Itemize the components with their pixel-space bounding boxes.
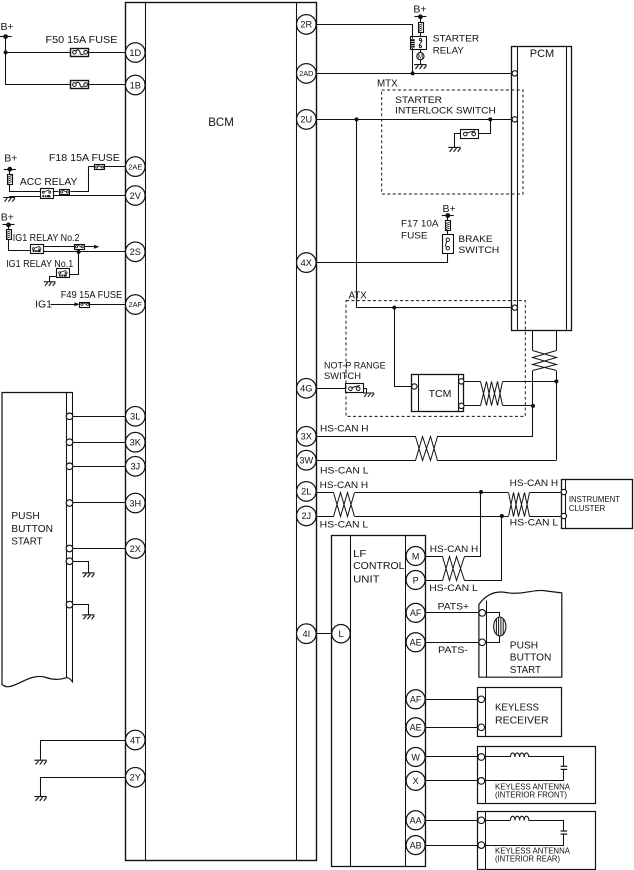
B+ terminal (brake switch) [442, 203, 456, 218]
BCM pin 2R [297, 15, 317, 35]
wire twist down HS-CAN H [532, 371, 534, 436]
svg-text:4X: 4X [301, 258, 312, 268]
TCM right strip line [458, 375, 460, 412]
svg-text:PATS+: PATS+ [438, 601, 470, 612]
svg-text:KEYLESS: KEYLESS [495, 702, 539, 713]
wire 2L twist to cluster twist [355, 492, 508, 494]
wire to antenna coil [486, 613, 500, 617]
wire F17 to brake switch [447, 231, 449, 235]
svg-text:HS-CAN H: HS-CAN H [320, 424, 369, 435]
wire interlock to ground [455, 134, 461, 148]
wire TCM H out [464, 381, 481, 383]
wire ACC coil to pin 2V [53, 195, 126, 197]
wire 2R to starter relay [317, 25, 413, 39]
svg-text:AF: AF [410, 695, 422, 705]
push button pin circle y=503 [66, 500, 73, 507]
wire AE PATS- [425, 642, 479, 644]
node junction on 2AD wire [411, 71, 415, 75]
svg-text:PUSH: PUSH [510, 640, 538, 651]
svg-text:TCM: TCM [429, 388, 452, 400]
LF pin AA y=820.3 [406, 811, 425, 830]
BCM pin 2U [297, 110, 317, 130]
svg-text:3L: 3L [130, 412, 140, 422]
fuse F49 [80, 303, 90, 308]
svg-text:3J: 3J [130, 462, 140, 472]
wire W/AA to rear [425, 820, 478, 822]
wire 4I to L [316, 633, 332, 635]
LF pin X y=780.9 [406, 771, 425, 790]
wire push button row 2 [73, 442, 126, 444]
BCM pin 3X [297, 427, 317, 447]
wire 4G to switch [316, 388, 345, 390]
push button right pin PATS- [479, 639, 486, 646]
cluster pin L [561, 513, 566, 518]
ground (interlock switch) [448, 147, 460, 151]
KEYLESS RECEIVER box [478, 688, 562, 737]
BCM pin 1B [126, 75, 146, 95]
svg-text:UNIT: UNIT [353, 574, 380, 585]
svg-text:F50 15A FUSE: F50 15A FUSE [46, 35, 118, 46]
wire AE to keyless receiver [425, 727, 478, 729]
TCM box [412, 375, 464, 412]
ground (push button 1) [82, 573, 94, 577]
wire coil to PATS- [486, 637, 500, 643]
svg-text:2X: 2X [130, 544, 141, 554]
wire X/AB to rear [425, 845, 478, 847]
brake switch contacts [445, 238, 449, 250]
LF pin W y=757 [406, 748, 425, 767]
svg-text:L: L [338, 629, 343, 639]
wire twist to vertical (L) [437, 460, 556, 462]
node junction 2U/ATX [355, 117, 359, 121]
wire AF PATS+ [425, 612, 479, 614]
PCM right strip line [566, 46, 568, 330]
BCM pin 4I [297, 624, 317, 644]
svg-text:CONTROL: CONTROL [353, 561, 405, 572]
node junction 1D feed [4, 50, 8, 54]
push button pin circle y=548.5 [66, 545, 73, 552]
wire twist to HS-CAN H vertical [503, 405, 533, 407]
LF CONTROL UNIT box [332, 536, 426, 867]
svg-text:FUSE: FUSE [401, 231, 428, 242]
PUSH BUTTON START box (right) [479, 590, 562, 677]
wire 3X HS-CAN H [316, 436, 416, 438]
LF pin AF y=699.3 [406, 690, 425, 709]
push button right pin PATS+ [479, 610, 486, 617]
arrow (IG1 feed) [74, 302, 79, 306]
BCM pin 2AF [126, 295, 146, 315]
svg-text:LF: LF [353, 549, 366, 560]
wire 2Y to ground [41, 778, 126, 797]
twisted pair at cluster [509, 493, 530, 517]
svg-text:2AF: 2AF [129, 300, 143, 309]
svg-text:HS-CAN L: HS-CAN L [429, 583, 478, 594]
wire fuse to pin 1D [89, 52, 126, 54]
BCM pin 3L [126, 407, 146, 427]
antenna strip rear [485, 812, 487, 870]
wire relay to motor [420, 49, 422, 52]
wire W/AA to front [425, 756, 478, 758]
LF pin AF y=612.9 [406, 603, 425, 622]
PCM box [512, 47, 572, 331]
svg-text:2Y: 2Y [130, 773, 141, 783]
wire push button ground 1 [73, 562, 89, 573]
svg-text:3K: 3K [130, 438, 142, 448]
wire B+ down to fuse [9, 169, 11, 174]
wire switch to ground [364, 389, 367, 393]
relay ACC RELAY [41, 189, 54, 199]
svg-text:3X: 3X [301, 432, 312, 442]
svg-text:ACC RELAY: ACC RELAY [20, 177, 78, 188]
wire 2L to twist [316, 492, 333, 494]
capacitor front [561, 766, 568, 769]
twisted pair 2L/2J [334, 493, 355, 517]
fuse F17 [446, 221, 451, 231]
LF pin AE y=727.3 [406, 718, 425, 737]
LF pin P y=580 [406, 571, 425, 590]
fusible link (ACC feed) [8, 175, 13, 185]
svg-text:BCM: BCM [208, 117, 234, 129]
svg-text:B+: B+ [1, 212, 14, 224]
LF pin AE y=642.3 [406, 633, 425, 652]
svg-text:2AD: 2AD [299, 69, 313, 78]
wire relay No.1 to ground [50, 277, 57, 282]
wire ACC coil ground [9, 196, 40, 198]
fuse F50 (1B feed) [71, 81, 89, 89]
wire X/AB to front [425, 780, 478, 782]
PCM left strip line [517, 46, 519, 330]
wire 4T to ground [41, 741, 126, 760]
svg-text:BUTTON: BUTTON [11, 524, 53, 535]
keyless receiver pin 1 [478, 696, 485, 703]
ATX dashed box [346, 301, 525, 417]
wire down to TCM [395, 308, 412, 387]
svg-text:B+: B+ [443, 203, 456, 215]
wire twist to HS-CAN L vertical [503, 381, 557, 383]
svg-text:P: P [413, 575, 419, 585]
svg-text:3W: 3W [299, 456, 313, 466]
svg-text:AE: AE [410, 638, 422, 648]
B+ terminal (starter relay) [413, 4, 426, 20]
wire starter relay coil down [412, 48, 414, 73]
antenna pin 1 rear [478, 817, 485, 824]
svg-text:W: W [411, 752, 420, 762]
svg-text:M: M [418, 54, 423, 61]
svg-text:2AE: 2AE [128, 162, 142, 171]
svg-text:HS-CAN H: HS-CAN H [510, 478, 559, 489]
relay IG1 RELAY No.2 [31, 245, 44, 254]
svg-text:INTERLOCK SWITCH: INTERLOCK SWITCH [395, 106, 496, 116]
antenna pin 2 front [478, 778, 485, 785]
svg-text:1D: 1D [129, 48, 141, 58]
svg-text:INSTRUMENT: INSTRUMENT [569, 495, 620, 504]
KEYLESS ANTENNA box rear [478, 812, 596, 870]
wire inductor to capacitor front [529, 757, 564, 767]
node junction HS-CAN H/TCM [531, 404, 535, 408]
svg-text:AA: AA [410, 816, 422, 826]
cluster strip line [565, 479, 567, 528]
fuse F18 [95, 165, 105, 170]
wire push button row 5 [73, 548, 126, 550]
wire to inductor rear [485, 820, 511, 822]
svg-text:4I: 4I [302, 629, 310, 639]
PCM pin (ATX) [512, 305, 517, 310]
twisted pair TCM-PCM [481, 382, 503, 406]
svg-text:MTX: MTX [377, 79, 398, 90]
B+ terminal (ACC relay) [4, 153, 18, 172]
twisted pair 3X/3W [416, 437, 438, 461]
BCM pin 2S [126, 242, 146, 262]
ground (push button 2) [82, 615, 94, 619]
wire M twist up to 2L [465, 493, 481, 557]
fuse (IG1 No.2 output) [75, 245, 85, 250]
wire fuse to pin 1B [89, 84, 126, 86]
antenna pin 2 rear [478, 842, 485, 849]
LF right strip inner line [405, 536, 407, 867]
wire 3W HS-CAN L [316, 460, 416, 462]
wire twist to cluster H [530, 492, 562, 494]
PCM pin (2U) [512, 117, 517, 122]
BCM pin 2V [126, 186, 146, 206]
svg-text:4G: 4G [300, 384, 312, 394]
wire B+ to fuse F17 [447, 216, 449, 221]
svg-text:2L: 2L [301, 487, 311, 497]
push button pin circle y=561.2 [66, 558, 73, 565]
wire capacitor to return rear [485, 835, 564, 846]
wire 2J twist to cluster twist [355, 516, 508, 518]
INSTRUMENT CLUSTER box [562, 480, 633, 529]
wire AF to keyless receiver [425, 699, 478, 701]
BCM pin 3K [126, 432, 146, 452]
wire to fuse F50a [6, 52, 72, 54]
starter relay coil [411, 39, 415, 47]
keyless receiver pin 2 [478, 724, 485, 731]
wire motor to ground [420, 60, 422, 65]
svg-text:2V: 2V [130, 191, 142, 201]
twisted pair M/P [443, 557, 465, 581]
fuse (ACC relay output) [60, 190, 70, 195]
wire ATX horizontal to PCM [357, 307, 513, 309]
svg-text:HS-CAN H: HS-CAN H [320, 480, 369, 491]
svg-text:STARTER: STARTER [433, 34, 480, 44]
node junction 2U/interlock [488, 117, 492, 121]
wire push button ground 2 [73, 605, 89, 615]
svg-text:HS-CAN L: HS-CAN L [510, 518, 559, 529]
svg-text:(INTERIOR FRONT): (INTERIOR FRONT) [495, 790, 567, 800]
antenna strip front [485, 747, 487, 804]
BCM pin 4G [297, 379, 317, 399]
svg-text:IG1 RELAY No.2: IG1 RELAY No.2 [13, 233, 80, 244]
TCM pin right lower [459, 403, 464, 408]
BCM pin 4T [126, 730, 146, 750]
svg-text:SWITCH: SWITCH [458, 245, 499, 256]
svg-text:F17 10A: F17 10A [401, 219, 439, 230]
svg-text:NOT-P RANGE: NOT-P RANGE [324, 360, 386, 370]
wire relay No.2 switch output [43, 246, 74, 248]
LF pin M y=556 [406, 547, 425, 566]
svg-text:M: M [412, 551, 420, 561]
capacitor rear [561, 831, 568, 834]
BCM pin 2L [297, 482, 317, 502]
svg-text:AF: AF [410, 608, 422, 618]
BCM pin 3H [126, 493, 146, 513]
wire IG1 to fuse F49 [51, 304, 77, 306]
wire P twist up to 2J [465, 517, 502, 581]
svg-text:BUTTON: BUTTON [510, 653, 552, 664]
svg-text:CLUSTER: CLUSTER [569, 504, 605, 513]
antenna pin 1 front [478, 754, 485, 761]
BCM box [126, 3, 317, 861]
ground (2Y) [34, 797, 46, 801]
BCM pin 2X [126, 539, 146, 559]
wire B+ down [8, 225, 10, 230]
wire B+ vertical [5, 37, 7, 85]
LF pin AB y=845.1 [406, 836, 425, 855]
wire push button row 3 [73, 466, 126, 468]
svg-text:2S: 2S [130, 247, 141, 257]
starter relay box [411, 37, 427, 50]
wire interlock switch drop [479, 120, 491, 134]
starter interlock switch [461, 130, 479, 139]
starter motor M [417, 53, 424, 61]
svg-text:PUSH: PUSH [11, 511, 39, 522]
relay IG1 RELAY No.1 [57, 269, 70, 278]
BCM pin 2AE [126, 157, 146, 177]
BCM pin 2AD [297, 64, 317, 84]
wire TCM L out [464, 405, 481, 407]
BCM pin 3J [126, 457, 146, 477]
svg-text:2U: 2U [300, 115, 312, 125]
svg-text:HS-CAN H: HS-CAN H [430, 544, 479, 555]
ground (ACC relay) [3, 198, 15, 202]
wire push button row 1 [73, 416, 126, 418]
TCM pin right upper [459, 379, 464, 384]
antenna coil (push button) [494, 617, 506, 636]
wire PCM CAN leads [533, 330, 557, 351]
wire to fuse F50b [6, 84, 72, 86]
BCM right connector strip line [296, 2, 298, 860]
wire 2AD to PCM [316, 73, 512, 75]
svg-text:B+: B+ [4, 153, 17, 165]
push button pin circle y=604.6 [66, 601, 73, 608]
svg-text:PCM: PCM [530, 48, 554, 60]
node junction HS-CAN L/TCM [554, 379, 558, 383]
wire to inductor front [485, 756, 511, 758]
wire twist to vertical (H) [437, 436, 533, 438]
KEYLESS ANTENNA box front [478, 747, 596, 804]
wire capacitor to return front [485, 770, 564, 781]
starter relay switch [419, 39, 422, 48]
inductor front [510, 753, 528, 757]
wire to arrow [85, 246, 95, 248]
wire fuse down to relay No.2 [9, 240, 31, 251]
node junction 2J/P [500, 514, 504, 518]
svg-text:AE: AE [410, 723, 422, 733]
PUSH BUTTON START box (left) [2, 393, 73, 687]
push button strip outer wave [66, 678, 73, 683]
wire twist to cluster L [530, 516, 562, 518]
svg-text:BRAKE: BRAKE [458, 234, 492, 245]
wire down to relay No.1 [70, 252, 79, 275]
TCM pin left [412, 384, 417, 389]
svg-text:2J: 2J [301, 511, 311, 521]
BCM pin 4X [297, 253, 317, 273]
push button pin circle y=442.2 [66, 439, 73, 446]
svg-text:B+: B+ [413, 4, 426, 16]
svg-text:X: X [413, 776, 419, 786]
wire up to fuse F18 [88, 166, 94, 168]
wire push button row 4 [73, 502, 126, 504]
fuse F50 (1D feed) [71, 49, 89, 57]
arrow (circuit continues) [94, 245, 99, 249]
ground (4T) [34, 760, 46, 764]
svg-text:RELAY: RELAY [433, 45, 464, 55]
wire M to twist [425, 556, 442, 558]
node junction 2L/M [479, 490, 483, 494]
push button strip outer line [72, 393, 74, 683]
node junction TCM drop [392, 306, 396, 310]
wire brake switch to pin 4X [317, 254, 448, 263]
push button right inner strip [486, 601, 488, 678]
BCM pin 1D [126, 43, 146, 63]
wire fuse to relay box [420, 33, 422, 37]
TCM left strip line [418, 375, 420, 412]
svg-text:F18 15A FUSE: F18 15A FUSE [49, 153, 120, 164]
svg-text:2R: 2R [300, 20, 312, 30]
svg-text:4T: 4T [130, 735, 141, 745]
ground (NOT-P switch) [363, 393, 374, 397]
BCM left connector strip line [145, 2, 147, 860]
BCM pin 3W [297, 450, 317, 470]
wire F18 to pin 2AE [105, 166, 126, 168]
wire fuse down and to relay [10, 185, 41, 192]
node junction IG1 No.1 [77, 250, 81, 254]
cluster pin H [561, 489, 566, 494]
push button pin circle y=416.3 [66, 413, 73, 420]
svg-text:START: START [11, 536, 42, 547]
NOT-P range switch [346, 384, 364, 393]
wire 2U branch down into ATX [356, 119, 358, 307]
brake switch box [443, 235, 454, 254]
twisted pair below PCM [533, 351, 557, 371]
push button strip inner line [66, 393, 68, 678]
svg-text:3H: 3H [129, 498, 141, 508]
MTX dashed box [382, 90, 523, 194]
BCM pin 2Y [126, 768, 146, 788]
svg-text:AB: AB [410, 840, 422, 850]
wire F49 to pin 2AF [90, 304, 126, 306]
svg-text:STARTER: STARTER [395, 95, 442, 105]
svg-text:SWITCH: SWITCH [324, 371, 361, 381]
keyless receiver strip [485, 688, 487, 737]
LF left strip line [350, 536, 352, 867]
svg-text:IG1: IG1 [35, 299, 52, 311]
wire 2J to twist [316, 516, 333, 518]
inductor rear [510, 816, 528, 820]
svg-text:B+: B+ [1, 21, 14, 33]
wire P to twist [425, 580, 442, 582]
B+ terminal (top left) [0, 21, 14, 39]
fusible link (IG1 feed) [7, 230, 12, 240]
wire relay to small fuse [53, 191, 59, 193]
wire fuse right then up [71, 167, 89, 192]
wire 2U to PCM [316, 119, 512, 121]
push button pin circle y=466.3 [66, 463, 73, 470]
svg-text:START: START [510, 665, 541, 676]
ground (IG1 relay No.1) [44, 282, 56, 286]
svg-text:ATX: ATX [349, 290, 368, 301]
fusible link (starter relay) [419, 23, 424, 33]
